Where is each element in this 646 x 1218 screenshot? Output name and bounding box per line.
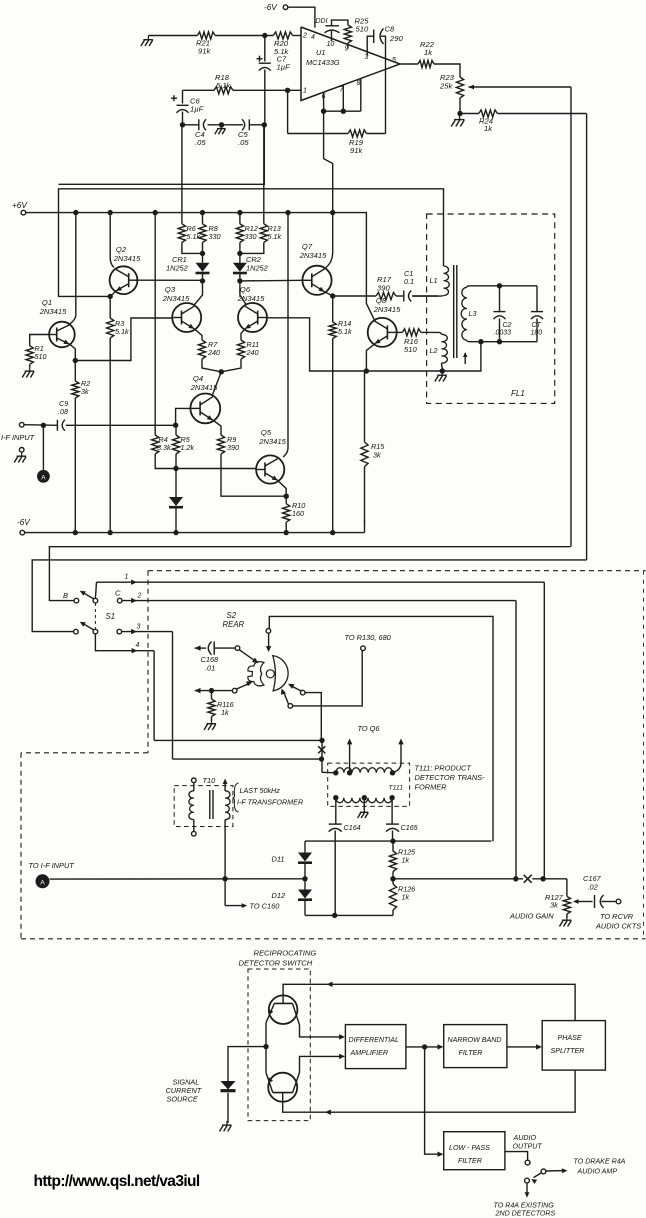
svg-text:A: A — [40, 879, 45, 886]
wire bus2 (R24 to S1 lower) — [32, 560, 586, 632]
resistor R18 5.1k — [183, 73, 302, 94]
label URL — [34, 1173, 200, 1190]
resistor R22 1k — [418, 40, 435, 68]
arrow (C168 arm to rotor) — [239, 650, 258, 664]
svg-text:T111: T111 — [389, 785, 404, 792]
wire (CR1 to Q3 collector) — [194, 281, 203, 305]
svg-text:TO R130, 680: TO R130, 680 — [345, 633, 392, 642]
svg-text:-6V: -6V — [17, 518, 31, 527]
node — [262, 122, 267, 127]
switch S2 rotor claw — [248, 662, 264, 686]
resistor R6 5.1k — [178, 125, 202, 254]
wire (I-F input line) — [50, 878, 305, 880]
wire (Q1 collector) — [70, 213, 76, 325]
capacitor C4 .05 — [195, 119, 206, 147]
wire (emitter to node) — [265, 1047, 267, 1073]
capacitor CT 180 — [531, 286, 544, 342]
capacitor C6 1uF — [171, 90, 204, 125]
svg-text:5.1k: 5.1k — [268, 232, 282, 241]
svg-text:3k: 3k — [550, 901, 558, 910]
resistor R15 3k — [361, 371, 385, 533]
node (line3 junction) — [173, 756, 325, 761]
svg-text:1k: 1k — [402, 893, 410, 902]
svg-text:AMPLIFIER: AMPLIFIER — [350, 1049, 388, 1057]
arrow TO Q6 (left) — [347, 739, 352, 773]
label S2 REAR — [223, 611, 245, 629]
node — [237, 251, 242, 256]
svg-text:2N3415: 2N3415 — [258, 437, 286, 446]
capacitor C168 .01 — [195, 642, 236, 673]
svg-text:TO Q6: TO Q6 — [358, 724, 381, 733]
svg-text:2N3415: 2N3415 — [373, 305, 401, 314]
arrow TO C160 — [225, 879, 280, 911]
capacitor C1 0.1 — [396, 269, 438, 302]
power +6V rail — [12, 201, 366, 215]
svg-text:.05: .05 — [195, 138, 206, 147]
capacitor C165 — [386, 798, 419, 841]
switch S1 wiper (upper) — [80, 582, 98, 603]
node (emitter junction) — [263, 1044, 268, 1049]
diode CR2 1N252 — [233, 253, 268, 281]
resistor R17 390 — [333, 275, 396, 300]
capacitor C7 1uF — [257, 36, 291, 125]
svg-text:2N3415: 2N3415 — [299, 251, 327, 260]
svg-text:2: 2 — [137, 593, 142, 600]
transistor Q8 2N3415 — [368, 296, 401, 347]
diode CR1 1N252 — [166, 253, 210, 281]
svg-text:91k: 91k — [198, 47, 211, 56]
svg-text:LAST 50kHz: LAST 50kHz — [240, 786, 281, 795]
svg-text:3.3k: 3.3k — [157, 443, 171, 452]
svg-text:D12: D12 — [272, 891, 286, 900]
transistor (detector top) — [266, 995, 300, 1025]
node — [180, 122, 185, 127]
transistor Q1 2N3415 — [39, 298, 75, 347]
diode D11 — [272, 841, 313, 879]
wire line3 — [122, 624, 173, 760]
svg-text:390: 390 — [377, 284, 390, 293]
node — [302, 876, 307, 881]
svg-text:Q5: Q5 — [261, 428, 272, 437]
inductor L2 — [430, 332, 448, 371]
wire — [434, 64, 460, 77]
svg-text:C2: C2 — [503, 322, 512, 329]
capacitor C167 .02 — [583, 874, 616, 908]
wire (Q3 emitter to R7) — [194, 329, 202, 340]
svg-text:2: 2 — [302, 33, 307, 40]
ground (signal source) — [220, 1121, 232, 1132]
node (Q5 emitter) — [284, 494, 289, 499]
svg-text:1.2k: 1.2k — [181, 443, 195, 452]
svg-text:1µF: 1µF — [277, 63, 291, 72]
arrow TO Q6 (right) — [393, 739, 404, 773]
ground (R21 input) — [141, 36, 198, 47]
wire bus1 (R23 wiper to S1-B) — [49, 547, 570, 601]
svg-text:OUTPUT: OUTPUT — [513, 1143, 543, 1151]
resistor R25 510 — [344, 17, 369, 49]
svg-text:C164: C164 — [344, 823, 361, 832]
transformer T111 primary — [333, 768, 403, 792]
switch S2 rotor blade — [273, 656, 288, 691]
svg-text:1N252: 1N252 — [166, 264, 188, 273]
wire (op-amp output) — [400, 63, 418, 65]
svg-text:Q3: Q3 — [165, 285, 176, 294]
wire (nb filter out) — [507, 1044, 542, 1049]
svg-text:U1: U1 — [316, 48, 325, 57]
diode DD1 — [316, 18, 348, 41]
label S1 — [106, 612, 116, 621]
transistor Q7 2N3415 — [299, 242, 332, 295]
svg-text:290: 290 — [389, 34, 403, 43]
wire (L2 to L3 loop) — [442, 342, 481, 371]
resistor R9 390 — [217, 435, 286, 496]
wire (to R127) — [566, 879, 568, 897]
svg-text:TO DRAKE R4A: TO DRAKE R4A — [574, 1158, 626, 1166]
svg-text:240: 240 — [207, 348, 220, 357]
svg-text:2N3415: 2N3415 — [162, 294, 190, 303]
svg-text:S1: S1 — [106, 612, 116, 621]
wire (to low-pass) — [425, 1047, 444, 1157]
resistor R19 91k — [288, 130, 386, 155]
svg-text:C: C — [115, 589, 121, 598]
resistor R7 240 — [198, 340, 221, 372]
switch S1 contact C — [115, 589, 122, 603]
switch S2 contact (lower right) — [281, 650, 362, 708]
svg-text:390: 390 — [227, 443, 239, 452]
wire (+6V to Q8 collector) — [366, 213, 375, 322]
wire line1 — [97, 574, 545, 879]
wire (Q4 emitter to R9) — [213, 420, 221, 435]
transistor Q2 2N3415 — [110, 245, 141, 294]
wire line2 — [122, 593, 516, 879]
wire (Q2 collector) — [110, 213, 114, 268]
svg-text:3k: 3k — [81, 387, 89, 396]
svg-text:MC1433G: MC1433G — [306, 58, 340, 67]
wire (Q5 collector) — [283, 213, 288, 457]
wire (Q8 emitter) — [366, 344, 374, 371]
resistor R10 160 — [283, 496, 306, 532]
svg-text:1k: 1k — [424, 48, 433, 57]
svg-text:L3: L3 — [469, 309, 477, 318]
svg-text:C8: C8 — [385, 25, 395, 34]
svg-text:L1: L1 — [430, 276, 438, 285]
wire (to T111 primary) — [322, 771, 336, 774]
svg-text:REAR: REAR — [223, 620, 245, 629]
wire (Q2 base to CR1) — [137, 279, 202, 281]
svg-text:330: 330 — [209, 232, 221, 241]
resistor R1 510 — [26, 344, 46, 364]
transistor Q3 2N3415 — [162, 285, 202, 332]
wire (audio output) — [505, 1152, 528, 1160]
wire (Q4 base) — [176, 408, 191, 425]
node (Q2 emitter) — [108, 294, 113, 299]
svg-text:LOW - PASS: LOW - PASS — [449, 1144, 490, 1152]
filter FL1 dashed box — [427, 214, 555, 403]
wire (R15 to -6V) — [364, 520, 366, 526]
node — [200, 251, 205, 256]
svg-text:4: 4 — [311, 34, 315, 41]
resistor R16 510 — [397, 329, 439, 354]
svg-text:.01: .01 — [205, 664, 215, 673]
svg-text:4: 4 — [136, 642, 140, 649]
transformer T111 secondary — [333, 795, 395, 803]
svg-text:TO RCVR: TO RCVR — [600, 912, 634, 921]
diode (signal current source) — [221, 1081, 236, 1123]
wire — [215, 35, 273, 37]
svg-text:5: 5 — [392, 57, 396, 64]
switch S2 contact (upper right) — [288, 684, 321, 738]
svg-text:160: 160 — [292, 509, 304, 518]
svg-text:.02: .02 — [588, 883, 598, 892]
svg-text:510: 510 — [356, 25, 369, 34]
transformer T111 dashed box — [328, 763, 410, 806]
wire (L3 bottom) — [470, 341, 537, 343]
wire (L3 top) — [470, 285, 537, 287]
node (line4 junction) — [154, 738, 325, 743]
label SIGNAL CURRENT SOURCE — [166, 1078, 202, 1104]
svg-text:A: A — [41, 474, 46, 481]
node (Q1 emitter) — [73, 358, 78, 363]
svg-text:CT: CT — [532, 322, 542, 329]
wire (CR2 to Q6 collector) — [240, 281, 247, 305]
transistor Q6 2N3415 — [237, 285, 267, 332]
svg-text:SOURCE: SOURCE — [167, 1095, 198, 1104]
resistor R4 3.3k — [152, 213, 257, 469]
wire — [293, 35, 301, 37]
arrow (R116 arm to rotor) — [237, 681, 253, 689]
dashed box (detector switch) — [248, 969, 310, 1121]
switch S2 rotor center — [266, 670, 274, 678]
wire (Q6 emitter to R11) — [241, 329, 245, 340]
transistor Q4 2N3415 — [190, 374, 221, 423]
wire (signal source) — [228, 1047, 266, 1081]
svg-text:DETECTOR SWITCH: DETECTOR SWITCH — [239, 959, 313, 968]
svg-text:I-F INPUT: I-F INPUT — [1, 433, 35, 442]
svg-text:FILTER: FILTER — [458, 1157, 482, 1165]
terminal A (input) — [37, 470, 50, 483]
X mark (detector injection) — [318, 740, 325, 772]
svg-text:1N252: 1N252 — [246, 264, 268, 273]
capacitor C8 290 — [367, 25, 403, 134]
svg-text:B: B — [63, 591, 68, 600]
wire (R116 node) — [195, 688, 233, 693]
wire (Q1 emitter) — [70, 344, 76, 361]
terminal (S2 rotor feed) — [266, 629, 271, 634]
wire (diff amp out) — [406, 1044, 444, 1049]
node — [457, 111, 462, 116]
svg-text:RECIPROCATING: RECIPROCATING — [254, 949, 317, 958]
svg-text:AUDIO GAIN: AUDIO GAIN — [509, 912, 554, 921]
svg-text:FILTER: FILTER — [459, 1049, 483, 1057]
ground (R127) — [559, 914, 571, 927]
wire (audio output line) — [393, 875, 567, 883]
label T111 description — [415, 764, 486, 792]
ground (T111 secondary center) — [358, 798, 369, 818]
switch S1 contact 3 — [117, 629, 122, 634]
label TO Q6 — [358, 724, 381, 733]
svg-text:3k: 3k — [373, 451, 381, 460]
wire (Q2 emitter lead) — [110, 291, 116, 297]
wire (Q2 emitter to FL1 L1) — [59, 189, 444, 297]
block PHASE SPLITTER — [542, 1021, 605, 1071]
resistor R21 91k — [196, 32, 215, 56]
diode (R5 bias) — [169, 469, 183, 533]
power -6V supply terminal — [264, 3, 315, 28]
terminal (C168 arm) — [235, 646, 240, 651]
resistor R12 330 — [236, 213, 257, 254]
node (diff amp out) — [422, 1044, 427, 1049]
node (Q7 emitter) — [330, 293, 335, 298]
node (R7/R11 junction) — [219, 369, 224, 374]
svg-text:I-F TRANSFORMER: I-F TRANSFORMER — [237, 798, 303, 807]
svg-text:10: 10 — [327, 41, 335, 48]
node — [497, 339, 502, 344]
svg-text:510: 510 — [404, 345, 417, 354]
wire (Q5 emitter) — [278, 481, 286, 497]
label LAST 50kHz — [233, 783, 304, 812]
svg-text:FORMER: FORMER — [415, 783, 448, 792]
wire (top emitter) — [265, 1023, 267, 1047]
svg-text:1: 1 — [303, 88, 307, 95]
wire (C7 node feedback line) — [59, 125, 265, 185]
node (pin1/R19 junction) — [285, 88, 290, 134]
svg-text:2N3415: 2N3415 — [39, 307, 67, 316]
svg-text:2N3415: 2N3415 — [113, 254, 141, 263]
capacitor C5 .05 — [238, 119, 249, 147]
ground (R23) — [451, 115, 464, 127]
terminal I-F INPUT — [1, 422, 57, 442]
wire (Q1 base) — [30, 335, 50, 346]
wire (D12/C164/R126 bottom) — [305, 913, 393, 918]
node — [200, 278, 205, 283]
svg-text:PHASE: PHASE — [558, 1034, 582, 1042]
node (R20/C7 junction) — [262, 33, 267, 38]
wire (D11/R125 node) — [305, 838, 492, 843]
capacitor C2 .0033 — [494, 286, 512, 342]
label AUDIO OUTPUT — [513, 1134, 543, 1151]
node (L2 ground) — [440, 368, 445, 373]
node (input) — [41, 423, 46, 470]
svg-text:3: 3 — [137, 624, 141, 631]
svg-text:SPLITTER: SPLITTER — [551, 1047, 585, 1055]
svg-text:S2: S2 — [227, 611, 237, 620]
ground (R1) — [22, 364, 34, 377]
resistor R14 5.1k — [329, 296, 352, 533]
inductor L3 — [461, 286, 476, 342]
transformer T10 secondary — [223, 779, 230, 879]
resistor R11 240 — [221, 340, 259, 372]
transistor Q5 2N3415 — [256, 428, 286, 484]
terminal TO RCVR — [595, 899, 641, 930]
svg-text:http://www.qsl.net/va3iul: http://www.qsl.net/va3iul — [34, 1173, 200, 1190]
node — [390, 876, 395, 881]
svg-text:8: 8 — [357, 80, 361, 87]
resistor R116 1k — [208, 691, 234, 721]
svg-text:NARROW BAND: NARROW BAND — [448, 1036, 502, 1044]
svg-text:.08: .08 — [58, 407, 68, 416]
svg-text:1k: 1k — [484, 124, 493, 133]
node (Q8 emitter) — [364, 368, 369, 373]
wire (top collector feedback) — [283, 982, 575, 1021]
svg-text:.0033: .0033 — [494, 330, 512, 337]
svg-text:TO I-F INPUT: TO I-F INPUT — [29, 861, 75, 870]
wire (line3 jog to S2) — [269, 616, 493, 841]
svg-text:TO C160: TO C160 — [250, 902, 281, 911]
switch S1 wiper (lower) — [80, 622, 98, 634]
capacitor C9 .08 — [57, 399, 175, 431]
block DIFFERENTIAL AMPLIFIER — [345, 1025, 406, 1069]
svg-text:DDI: DDI — [316, 18, 328, 25]
svg-text:180: 180 — [531, 330, 543, 337]
node — [173, 466, 178, 471]
wire (Q4 collector) — [212, 372, 221, 396]
svg-text:1: 1 — [125, 574, 129, 581]
wire (Q1 emitter to Q3 base) — [75, 318, 172, 361]
svg-text:2N3415: 2N3415 — [237, 294, 265, 303]
terminal ground (input) — [14, 448, 26, 463]
transistor (detector bottom) — [266, 1073, 300, 1102]
svg-text:DIFFERENTIAL: DIFFERENTIAL — [349, 1036, 400, 1044]
ground (C4/C5) — [215, 122, 226, 134]
svg-text:2ND DETECTORS: 2ND DETECTORS — [495, 1210, 556, 1218]
svg-text:0.1: 0.1 — [404, 277, 414, 286]
label RECIPROCATING DETECTOR SWITCH — [239, 949, 317, 968]
wire (Q6 base) — [267, 318, 367, 371]
capacitor C164 — [329, 798, 361, 916]
svg-text:AUDIO AMP: AUDIO AMP — [577, 1168, 618, 1176]
svg-text:Q6: Q6 — [240, 285, 251, 294]
resistor R20 5.1k — [273, 32, 292, 56]
svg-text:1µF: 1µF — [190, 105, 204, 114]
wire (Q7 base) — [240, 279, 303, 282]
inductor L1 — [413, 266, 449, 296]
svg-text:L2: L2 — [430, 346, 438, 355]
diode D12 — [272, 879, 313, 916]
svg-text:T10: T10 — [203, 776, 217, 785]
svg-text:DETECTOR TRANS-: DETECTOR TRANS- — [415, 773, 486, 782]
svg-text:-6V: -6V — [264, 3, 278, 12]
terminal (R116 arm) — [232, 688, 237, 693]
svg-text:Q1: Q1 — [42, 298, 52, 307]
transformer core (FL1) — [454, 265, 457, 358]
node — [237, 278, 242, 283]
wire (C4/C5 bus) — [183, 124, 265, 126]
wire (pins 6-7-8 to rail) — [321, 79, 361, 213]
resistor R2 3k — [72, 361, 91, 533]
arrow (tuning) — [463, 352, 467, 364]
transformer T10 primary — [189, 778, 196, 836]
ground (L2) — [435, 371, 447, 382]
terminal TO R130 — [345, 633, 392, 651]
svg-text:5.1k: 5.1k — [216, 81, 232, 90]
svg-text:TO R4A EXISTING: TO R4A EXISTING — [494, 1202, 555, 1210]
block LOW-PASS FILTER — [444, 1132, 505, 1170]
terminal A (to I-F input) — [29, 861, 75, 888]
svg-text:+6V: +6V — [12, 201, 28, 210]
svg-text:AUDIO CKTS: AUDIO CKTS — [595, 922, 641, 931]
svg-text:AUDIO: AUDIO — [513, 1134, 537, 1142]
resistor R126 1k — [389, 879, 415, 916]
transformer core (T10) — [210, 790, 213, 819]
wire (Q7 collector) — [326, 213, 333, 268]
resistor R3 5.1k — [107, 296, 129, 532]
block NARROW BAND FILTER — [444, 1025, 507, 1068]
svg-text:1k: 1k — [221, 708, 229, 717]
svg-text:240: 240 — [246, 348, 259, 357]
ground (R116) — [204, 720, 216, 731]
label TO R4A EXISTING — [494, 1202, 556, 1218]
svg-text:D11: D11 — [272, 855, 285, 864]
